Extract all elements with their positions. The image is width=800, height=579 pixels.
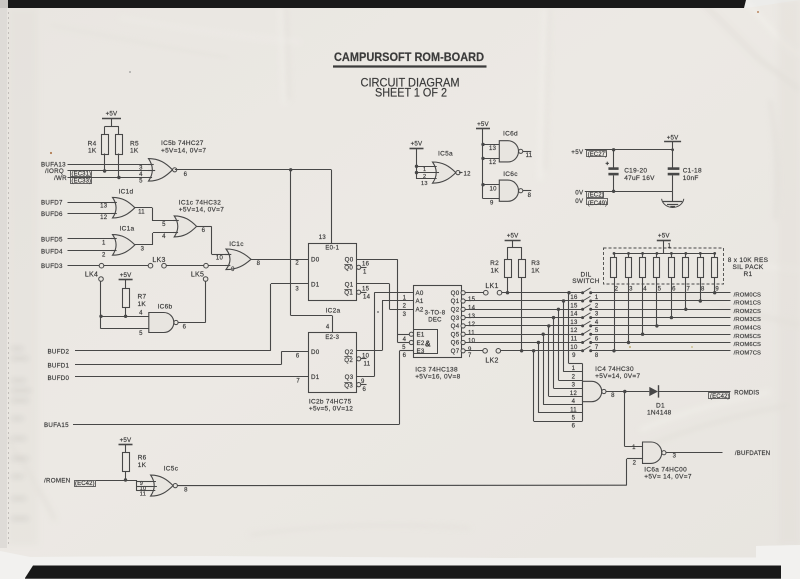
svg-text:/ROM0CS: /ROM0CS (734, 292, 761, 298)
svg-text:R2: R2 (490, 260, 499, 267)
svg-text:47uF 16V: 47uF 16V (624, 175, 655, 182)
svg-text:8: 8 (611, 393, 615, 399)
svg-text:Q0: Q0 (344, 265, 353, 272)
svg-text:IC1c: IC1c (229, 241, 244, 248)
svg-text:IC6d: IC6d (503, 131, 518, 138)
svg-text:/ROM6CS: /ROM6CS (734, 342, 761, 348)
svg-text:IC5a: IC5a (438, 150, 453, 157)
svg-text:9: 9 (715, 286, 719, 292)
svg-text:2: 2 (633, 461, 637, 467)
svg-text:11: 11 (138, 209, 145, 215)
svg-text:12: 12 (100, 215, 108, 221)
svg-text:4: 4 (139, 172, 143, 178)
svg-text:11: 11 (526, 153, 533, 159)
svg-text:1: 1 (102, 241, 106, 247)
svg-text:11: 11 (468, 330, 475, 336)
svg-text:6: 6 (296, 354, 300, 360)
svg-text:8 x 10K RES: 8 x 10K RES (728, 257, 769, 264)
svg-text:C1-18: C1-18 (683, 168, 702, 175)
svg-text:+5V: +5V (507, 233, 519, 240)
svg-text:xxxxxxx: xxxxxxx (11, 456, 29, 462)
svg-text:/ROMEN: /ROMEN (44, 478, 71, 485)
svg-text:5: 5 (402, 345, 406, 351)
svg-text:SHEET 1 OF 2: SHEET 1 OF 2 (375, 87, 447, 100)
svg-text:1K: 1K (138, 462, 147, 469)
svg-text:8: 8 (184, 488, 188, 494)
svg-text:2: 2 (423, 174, 426, 180)
svg-text:IC5b 74HC27: IC5b 74HC27 (161, 140, 204, 147)
svg-text:Q3: Q3 (344, 382, 353, 389)
svg-text:IC5c: IC5c (164, 466, 179, 473)
svg-text:R5: R5 (130, 141, 139, 148)
svg-text:Q3: Q3 (451, 315, 460, 322)
svg-text:Q1: Q1 (344, 290, 353, 297)
svg-text:1K: 1K (531, 267, 540, 274)
svg-text:4: 4 (162, 234, 166, 240)
svg-text:14: 14 (363, 294, 371, 300)
svg-text:(EC49): (EC49) (588, 201, 608, 207)
svg-text:2: 2 (403, 304, 407, 310)
svg-text:14: 14 (570, 312, 578, 318)
svg-text:+5V: +5V (658, 233, 670, 240)
svg-text:0V: 0V (575, 190, 584, 197)
svg-text:R3: R3 (531, 260, 540, 267)
svg-text:/ROM5CS: /ROM5CS (734, 334, 761, 340)
svg-text:BUFD4: BUFD4 (41, 248, 63, 255)
svg-text:IC3 74HC138: IC3 74HC138 (415, 367, 458, 374)
svg-text:9: 9 (361, 379, 365, 385)
svg-text:13: 13 (468, 314, 476, 320)
svg-text:8: 8 (528, 193, 532, 199)
svg-text:IC4 74HC30: IC4 74HC30 (595, 366, 634, 373)
svg-text:6: 6 (363, 387, 367, 393)
svg-text:SWITCH: SWITCH (572, 278, 599, 285)
svg-text:15: 15 (362, 286, 370, 292)
svg-text:3: 3 (139, 165, 143, 171)
svg-text:8: 8 (595, 353, 599, 359)
svg-text:xxxxxxxx: xxxxxxxx (11, 388, 32, 394)
svg-text:E3: E3 (417, 348, 425, 355)
svg-text:4: 4 (139, 311, 143, 317)
svg-text:LK1: LK1 (485, 283, 498, 290)
svg-text:3-TO-8: 3-TO-8 (425, 311, 446, 317)
svg-text:10: 10 (490, 187, 498, 193)
svg-text:3: 3 (295, 286, 299, 292)
svg-text:/ROM4CS: /ROM4CS (734, 326, 761, 332)
svg-text:xxxxx: xxxxx (11, 416, 24, 422)
svg-text:D0: D0 (311, 349, 320, 356)
svg-text:1K: 1K (88, 148, 97, 155)
svg-text:4: 4 (643, 286, 647, 292)
svg-text:10: 10 (216, 256, 224, 262)
svg-text:E1: E1 (417, 332, 425, 339)
svg-text:D1: D1 (311, 281, 320, 288)
svg-text:7: 7 (686, 286, 690, 292)
svg-text:3: 3 (595, 312, 599, 318)
svg-text:IC1d: IC1d (119, 189, 134, 196)
svg-text:1N4148: 1N4148 (647, 410, 672, 417)
svg-text:13: 13 (100, 203, 108, 209)
svg-text:1K: 1K (130, 148, 139, 155)
svg-text:xxxxx: xxxxx (11, 346, 24, 352)
svg-text:BUFD5: BUFD5 (41, 236, 63, 243)
svg-text:R7: R7 (138, 294, 147, 301)
svg-text:16: 16 (362, 262, 370, 268)
svg-text:3: 3 (572, 383, 576, 389)
svg-text:1K: 1K (490, 267, 499, 274)
svg-text:DEC: DEC (428, 318, 442, 324)
svg-text:/ROM7CS: /ROM7CS (734, 350, 761, 356)
svg-text:Q1: Q1 (345, 281, 354, 288)
svg-text:IC1c 74HC32: IC1c 74HC32 (179, 200, 221, 207)
svg-text:/ROM2CS: /ROM2CS (734, 309, 761, 315)
svg-text:LK4: LK4 (85, 272, 98, 279)
svg-text:Q6: Q6 (451, 340, 460, 347)
svg-text:7: 7 (296, 378, 300, 384)
svg-text:5: 5 (139, 331, 143, 337)
svg-text:/BUFDATEN: /BUFDATEN (735, 451, 770, 457)
svg-text:+5v=5, 0V=12: +5v=5, 0V=12 (309, 405, 353, 412)
svg-text:9: 9 (572, 353, 576, 359)
svg-text:10: 10 (570, 345, 578, 351)
svg-text:Q4: Q4 (451, 323, 460, 330)
svg-text:A2: A2 (416, 307, 424, 314)
svg-text:ROMDIS: ROMDIS (734, 390, 759, 396)
svg-text:(EC27): (EC27) (588, 152, 608, 158)
svg-text:Q2: Q2 (451, 307, 460, 314)
svg-text:IC2a: IC2a (326, 308, 341, 315)
svg-text:13: 13 (319, 235, 327, 241)
svg-text:IC6b: IC6b (158, 304, 173, 311)
svg-text:BUFD1: BUFD1 (48, 362, 70, 369)
svg-text:/ROM1CS: /ROM1CS (734, 301, 761, 307)
svg-text:15: 15 (570, 303, 578, 309)
svg-text:6: 6 (183, 324, 187, 330)
svg-text:xxxxxx: xxxxxx (11, 496, 27, 502)
svg-text:E2-3: E2-3 (325, 335, 339, 341)
svg-text:5: 5 (595, 328, 599, 334)
svg-text:xxxxxx: xxxxxx (11, 378, 27, 384)
svg-text:9: 9 (231, 267, 235, 273)
svg-text:R1: R1 (744, 271, 753, 278)
svg-text:4: 4 (326, 324, 330, 330)
svg-text:1K: 1K (138, 301, 147, 308)
svg-text:D0: D0 (311, 256, 320, 263)
svg-text:1: 1 (632, 445, 636, 451)
svg-text:BUFD3: BUFD3 (41, 263, 63, 270)
svg-text:6: 6 (403, 353, 407, 359)
svg-text:5: 5 (658, 286, 662, 292)
svg-text:8: 8 (257, 261, 261, 267)
svg-text:+5V= 14, 0V=7: +5V= 14, 0V=7 (644, 473, 692, 480)
svg-text:+5V: +5V (120, 437, 132, 444)
svg-text:+5V: +5V (120, 272, 132, 279)
svg-text:+5V: +5V (106, 111, 118, 118)
svg-text:12: 12 (570, 391, 578, 397)
svg-text:3: 3 (403, 312, 407, 318)
svg-text:BUFD2: BUFD2 (48, 348, 70, 355)
svg-text:11: 11 (140, 491, 146, 497)
svg-text:xxxxxxx: xxxxxxx (11, 356, 29, 362)
svg-text:Q3: Q3 (345, 374, 354, 381)
svg-text:+5V=14, 0V=7: +5V=14, 0V=7 (179, 207, 224, 214)
svg-text:2: 2 (295, 260, 299, 266)
svg-text:/WR: /WR (54, 175, 67, 182)
svg-text:+5V: +5V (411, 140, 423, 147)
svg-text:C19-20: C19-20 (624, 168, 647, 175)
svg-text:6: 6 (184, 172, 188, 178)
svg-text:A1: A1 (416, 298, 424, 305)
svg-text:3: 3 (141, 246, 145, 252)
svg-text:IC6a 74HC00: IC6a 74HC00 (644, 466, 687, 473)
svg-text:+5V=14, 0V=7: +5V=14, 0V=7 (595, 373, 640, 380)
svg-text:6: 6 (572, 424, 576, 430)
svg-text:2: 2 (102, 252, 106, 258)
svg-text:11: 11 (571, 337, 578, 343)
svg-text:5: 5 (162, 222, 166, 228)
svg-text:7: 7 (595, 345, 599, 351)
svg-text:BUFD6: BUFD6 (41, 211, 63, 218)
svg-text:+5V: +5V (477, 121, 489, 128)
svg-text:1: 1 (403, 296, 407, 302)
svg-text:5: 5 (572, 415, 576, 421)
svg-text:Q2: Q2 (344, 357, 353, 364)
svg-text:D1: D1 (311, 374, 320, 381)
svg-text:xxxxx: xxxxx (11, 474, 24, 480)
svg-text:SIL PACK: SIL PACK (733, 264, 764, 271)
svg-text:+5V=16, 0V=8: +5V=16, 0V=8 (415, 374, 460, 381)
svg-text:BUFA15: BUFA15 (44, 422, 69, 429)
svg-text:R6: R6 (138, 455, 147, 462)
svg-text:5: 5 (139, 178, 143, 184)
svg-text:LK5: LK5 (191, 272, 204, 279)
svg-text:6: 6 (595, 337, 599, 343)
svg-text:8: 8 (701, 286, 705, 292)
svg-text:6: 6 (672, 286, 676, 292)
svg-text:A0: A0 (416, 290, 424, 297)
svg-text:16: 16 (570, 295, 578, 301)
svg-text:13: 13 (421, 181, 428, 187)
svg-text:+: + (605, 161, 609, 168)
svg-text:E0-1: E0-1 (325, 246, 339, 252)
svg-text:+5V=14, 0V=7: +5V=14, 0V=7 (161, 147, 206, 154)
svg-text:13: 13 (570, 320, 578, 326)
svg-text:13: 13 (489, 146, 497, 152)
svg-text:xxxxxxx: xxxxxxx (11, 516, 29, 522)
svg-text:D1: D1 (656, 403, 665, 410)
svg-text:10: 10 (468, 339, 476, 345)
svg-text:2: 2 (572, 374, 576, 380)
svg-text:14: 14 (468, 306, 476, 312)
svg-text:IC1a: IC1a (120, 226, 135, 233)
svg-text:xxxxxx: xxxxxx (11, 436, 27, 442)
svg-text:11: 11 (364, 361, 371, 367)
svg-text:6: 6 (202, 228, 206, 234)
svg-text:Q7: Q7 (451, 348, 460, 355)
svg-text:2: 2 (595, 303, 599, 309)
svg-text:CAMPURSOFT ROM-BOARD: CAMPURSOFT ROM-BOARD (334, 50, 484, 64)
svg-text:R4: R4 (88, 141, 97, 148)
svg-text:Q1: Q1 (451, 298, 460, 305)
svg-text:Q5: Q5 (451, 331, 460, 338)
svg-text:Q0: Q0 (451, 290, 460, 297)
svg-text:12: 12 (570, 328, 578, 334)
svg-text:9: 9 (490, 200, 494, 206)
svg-text:0V: 0V (575, 198, 584, 205)
svg-text:12: 12 (489, 160, 497, 166)
svg-text:2: 2 (615, 286, 619, 292)
svg-text:IC6c: IC6c (503, 171, 518, 178)
svg-text:xxxxxxx: xxxxxxx (11, 398, 29, 404)
svg-text:LK3: LK3 (152, 257, 165, 264)
svg-text:4: 4 (403, 337, 407, 343)
svg-text:3: 3 (629, 286, 633, 292)
svg-text:+5V: +5V (571, 149, 584, 156)
svg-text:10nF: 10nF (683, 175, 699, 182)
svg-text:LK2: LK2 (485, 358, 498, 365)
svg-text:1: 1 (363, 269, 367, 275)
svg-text:3: 3 (673, 454, 677, 460)
svg-text:/ROM3CS: /ROM3CS (734, 317, 761, 323)
svg-text:&: & (425, 340, 431, 349)
svg-text:BUFD7: BUFD7 (41, 199, 63, 206)
svg-text:Q0: Q0 (345, 256, 354, 263)
svg-text:E2: E2 (417, 340, 425, 347)
svg-text:IC2b 74HC75: IC2b 74HC75 (309, 398, 352, 405)
svg-text:7: 7 (468, 353, 472, 359)
svg-text:12: 12 (464, 171, 472, 177)
svg-text:+5V: +5V (667, 134, 679, 141)
svg-text:Q2: Q2 (345, 349, 354, 356)
svg-text:BUFD0: BUFD0 (48, 375, 70, 382)
